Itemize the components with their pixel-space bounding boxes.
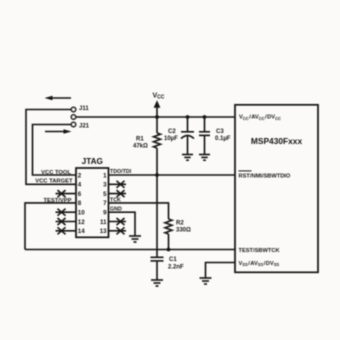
svg-text:8: 8: [78, 200, 82, 207]
svg-text:0.1µF: 0.1µF: [215, 136, 231, 142]
svg-text:VCC: VCC: [153, 93, 165, 101]
svg-text:VCC TARGET: VCC TARGET: [35, 179, 73, 185]
svg-text:RST/NMI/SBWTDIO: RST/NMI/SBWTDIO: [239, 174, 291, 180]
no-connect X pin 6: [56, 190, 77, 197]
svg-text:MSP430Fxxx: MSP430Fxxx: [251, 136, 303, 146]
no-connect X pin 14: [56, 227, 77, 234]
wire Vss to ground: [206, 263, 236, 278]
wire TEST/VPP loop (pin8 to TEST line): [25, 203, 76, 250]
junction R2 bottom on TEST line: [167, 248, 171, 252]
svg-text:VCC / AVCC / DVCC: VCC / AVCC / DVCC: [239, 115, 281, 121]
svg-text:C3: C3: [216, 129, 224, 135]
ground under C2: [182, 155, 193, 161]
pin label RST/NMI/SBWTDIO with overline: [239, 171, 291, 180]
capacitor C3 0.1uF: [199, 117, 210, 155]
svg-text:R2: R2: [176, 220, 184, 226]
no-connect X pin 13: [109, 227, 127, 234]
svg-text:R1: R1: [136, 136, 144, 142]
arrow power-from-tool (points left): [45, 96, 72, 101]
wire J21 to VCC TOOL (inner left loop): [33, 125, 77, 176]
svg-text:JTAG: JTAG: [82, 157, 103, 166]
ground under C3: [199, 155, 210, 161]
svg-text:47kΩ: 47kΩ: [133, 143, 148, 149]
svg-text:13: 13: [100, 228, 107, 235]
svg-text:11: 11: [100, 219, 107, 226]
svg-text:2.2nF: 2.2nF: [168, 264, 184, 270]
no-connect X pin 3: [109, 181, 127, 188]
svg-text:TEST/SBWTCK: TEST/SBWTCK: [239, 248, 281, 254]
svg-text:VCC TOOL: VCC TOOL: [41, 170, 71, 176]
svg-text:5: 5: [103, 191, 107, 198]
svg-text:14: 14: [78, 228, 85, 235]
wire TDO/TDI to RST (pin1): [109, 174, 236, 176]
wire TEST line to MSP430: [25, 249, 235, 251]
arrow power-from-target (points right): [45, 129, 72, 134]
ground under C1: [151, 280, 163, 286]
junction C2 tap: [186, 115, 190, 119]
svg-text:4: 4: [78, 182, 82, 189]
svg-text:330Ω: 330Ω: [176, 227, 191, 233]
capacitor C1 2.2nF on RST line: [151, 257, 164, 279]
svg-text:10: 10: [78, 210, 85, 217]
svg-text:3: 3: [103, 182, 107, 189]
no-connect X pin 10: [56, 209, 77, 216]
junction R1 bottom on RST line: [155, 173, 159, 177]
svg-text:12: 12: [78, 219, 85, 226]
no-connect X pin 12: [56, 218, 77, 225]
jumper J11 top pin circle: [71, 107, 75, 111]
wire Vcc horizontal rail: [76, 116, 235, 118]
wire J11 to VCC TARGET (outer left loop): [26, 110, 76, 185]
svg-text:9: 9: [103, 210, 107, 217]
JTAG pin numbers left column: [78, 172, 85, 235]
junction Vcc rail / R1 top: [155, 115, 159, 119]
svg-text:1: 1: [103, 172, 107, 179]
svg-text:C2: C2: [168, 129, 176, 135]
svg-text:J21: J21: [79, 124, 90, 130]
resistor R2 330 Ohm: [165, 219, 172, 250]
svg-text:VSS / AVSS / DVSS: VSS / AVSS / DVSS: [239, 261, 280, 267]
no-connect X pin 5: [109, 190, 127, 197]
resistor R1 47kOhm pull-up: [154, 117, 161, 175]
wire TCK (pin7) to R2: [109, 203, 169, 219]
power Vcc symbol: [153, 93, 165, 118]
svg-text:7: 7: [103, 200, 107, 207]
svg-text:10µF: 10µF: [164, 136, 178, 142]
JTAG pin numbers right column: [100, 172, 107, 235]
ground at Vss: [200, 278, 212, 284]
ground at JTAG GND pin: [129, 236, 141, 242]
wire GND (pin9): [109, 212, 136, 236]
svg-text:6: 6: [78, 191, 82, 198]
wire RST drop to C1: [156, 175, 158, 257]
capacitor C2 10uF (polarized): [181, 117, 194, 155]
junction C3 tap: [203, 115, 207, 119]
svg-text:2: 2: [78, 172, 82, 179]
JTAG connector box: [76, 168, 109, 237]
jumper center pin circle (Vcc): [71, 115, 75, 119]
svg-text:J11: J11: [79, 106, 89, 112]
MSP430 device box U1: [235, 105, 318, 272]
svg-text:C1: C1: [169, 257, 177, 263]
no-connect X pin 11: [109, 218, 127, 225]
jumper J21 bottom pin circle: [71, 122, 75, 126]
